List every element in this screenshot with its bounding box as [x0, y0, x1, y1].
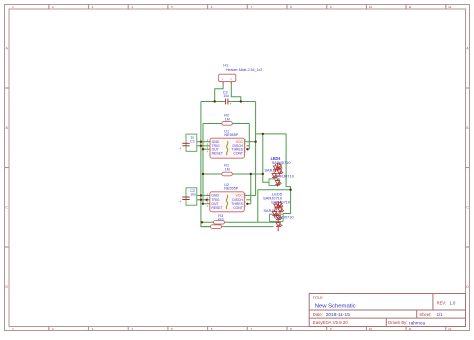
svg-text:Sheet:: Sheet:: [419, 312, 431, 317]
svg-text:12: 12: [448, 327, 452, 331]
svg-text:+: +: [179, 200, 181, 204]
svg-text:RESET: RESET: [211, 206, 222, 210]
svg-text:rahmou: rahmou: [409, 320, 426, 326]
svg-text:NE555P: NE555P: [224, 133, 239, 137]
svg-text:NE555P: NE555P: [224, 187, 239, 191]
svg-text:RESET: RESET: [212, 151, 223, 155]
svg-text:12: 12: [448, 5, 452, 9]
svg-text:B: B: [6, 126, 8, 130]
svg-text:1.0: 1.0: [450, 300, 456, 305]
svg-text:B: B: [466, 126, 468, 130]
svg-text:New Schematic: New Schematic: [315, 303, 356, 309]
svg-text:VCC: VCC: [236, 194, 244, 198]
svg-text:+: +: [230, 102, 232, 106]
svg-text:10u: 10u: [190, 193, 196, 197]
svg-text:TITLE:: TITLE:: [313, 296, 324, 300]
svg-text:EasyEDA V5.9.20: EasyEDA V5.9.20: [313, 320, 348, 325]
svg-text:SARJ07: SARJ07: [264, 209, 278, 213]
svg-text:11: 11: [409, 5, 412, 9]
svg-text:SARJ0710: SARJ0710: [272, 160, 292, 165]
svg-text:CONT: CONT: [233, 151, 243, 155]
svg-text:Date:: Date:: [313, 312, 323, 317]
svg-text:470: 470: [218, 218, 224, 222]
svg-text:SARJ0710: SARJ0710: [271, 199, 291, 204]
svg-text:10: 10: [369, 5, 373, 9]
svg-text:CONT: CONT: [233, 206, 243, 210]
svg-text:11: 11: [409, 327, 412, 331]
svg-text:1M: 1M: [225, 117, 230, 121]
svg-text:C1: C1: [190, 139, 195, 143]
svg-text:+: +: [179, 146, 181, 150]
svg-text:10u: 10u: [223, 94, 229, 98]
svg-text:Header-Male-2.54_1x2: Header-Male-2.54_1x2: [226, 68, 262, 72]
svg-text:REV:: REV:: [437, 300, 447, 305]
svg-text:1M: 1M: [225, 167, 230, 171]
svg-text:GND: GND: [211, 194, 219, 198]
svg-text:SARJ07: SARJ07: [265, 169, 279, 173]
svg-text:Drawn By:: Drawn By:: [388, 320, 407, 325]
svg-text:10: 10: [369, 327, 373, 331]
svg-text:2018-11-15: 2018-11-15: [326, 312, 351, 318]
svg-text:1/1: 1/1: [437, 312, 444, 317]
